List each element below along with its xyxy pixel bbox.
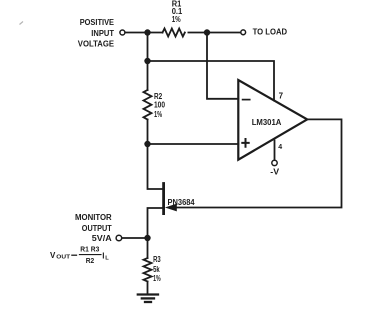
svg-text:R3: R3 [153, 255, 161, 264]
svg-text:VOLTAGE: VOLTAGE [78, 39, 114, 48]
svg-text:PN3684: PN3684 [168, 198, 196, 207]
svg-text:7: 7 [279, 91, 284, 100]
svg-text:100: 100 [154, 101, 166, 110]
svg-text:I: I [102, 251, 104, 260]
svg-text:R2: R2 [86, 258, 95, 265]
svg-text:4: 4 [278, 144, 282, 151]
svg-text:OUT: OUT [56, 255, 70, 261]
svg-text:MONITOR: MONITOR [75, 213, 112, 222]
svg-text:5V/A: 5V/A [92, 234, 112, 243]
svg-text:POSITIVE: POSITIVE [80, 18, 114, 27]
svg-text:R1 R3: R1 R3 [80, 247, 99, 254]
svg-text:-V: -V [270, 168, 280, 177]
svg-text:1%: 1% [153, 274, 161, 283]
svg-text:V: V [50, 251, 56, 260]
svg-text:INPUT: INPUT [91, 29, 114, 38]
svg-text:LM301A: LM301A [252, 118, 282, 127]
svg-text:5k: 5k [153, 265, 160, 274]
svg-text:1%: 1% [154, 110, 162, 119]
svg-text:OUTPUT: OUTPUT [82, 224, 112, 233]
svg-text:1%: 1% [172, 15, 181, 24]
svg-text:TO LOAD: TO LOAD [253, 27, 288, 36]
svg-text:L: L [105, 256, 109, 262]
